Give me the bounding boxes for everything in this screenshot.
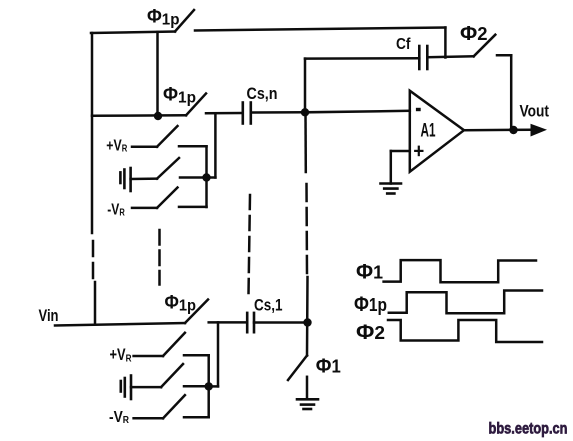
label plus input: [415, 147, 422, 155]
label +VR bottom mux: [110, 346, 132, 364]
wire mux node link: [207, 176, 216, 179]
wire gnd lead top mux: [131, 177, 157, 180]
svg-text:Φ1p: Φ1p: [165, 293, 197, 315]
svg-text:bbs.eetop.cn: bbs.eetop.cn: [489, 421, 568, 438]
label -VR bottom mux: [109, 409, 130, 426]
waveform phi2: [388, 320, 542, 342]
wire bottom mux link: [209, 385, 218, 388]
wire summing column solid upper: [304, 112, 307, 172]
label Cs,1: [254, 296, 283, 315]
label phi2 timing: [356, 321, 385, 344]
capacitor Cs,n: [243, 103, 251, 124]
capacitor Cf: [419, 46, 427, 69]
label +VR top mux: [106, 137, 128, 154]
svg-text:Vin: Vin: [39, 306, 59, 325]
wire summing column solid lower: [306, 277, 309, 356]
svg-text:Φ1p: Φ1p: [163, 85, 196, 107]
switch S2 phi1p branch n: [186, 94, 206, 116]
wire phi1 lower contact to ground: [306, 377, 309, 399]
wire left rail dashed: [92, 241, 95, 279]
ground symbol bottom mux rotated: [121, 376, 131, 400]
svg-text:+VR: +VR: [110, 346, 132, 364]
svg-text:Φ1p: Φ1p: [354, 293, 387, 316]
wire -VR contact bottom: [184, 416, 209, 419]
capacitor Cs,1: [247, 313, 254, 332]
node top mux dot: [202, 173, 210, 181]
node output dot: [509, 126, 517, 134]
wire +VR lead bottom: [134, 355, 163, 358]
label phi1 timing: [356, 261, 383, 284]
wire -VR contact top: [179, 206, 207, 209]
waveform phi1: [384, 260, 536, 282]
label minus input: [416, 108, 421, 111]
wire Cf to phi2 switch: [427, 55, 473, 58]
label Vin: [39, 306, 59, 325]
wire op-amp output: [464, 128, 531, 131]
node summing node dot: [301, 108, 309, 116]
label Cs,n: [247, 84, 278, 103]
label phi1p timing: [354, 293, 387, 316]
wire summing column dashed: [305, 184, 308, 274]
wire plus input to ground: [390, 151, 393, 184]
arrow output: [531, 124, 548, 137]
wire vertical to mux node: [214, 113, 217, 177]
label Vout: [520, 102, 550, 121]
svg-text:Cs,n: Cs,n: [247, 84, 278, 103]
wire phi2 to output: [510, 55, 513, 130]
svg-text:Φ1: Φ1: [316, 355, 341, 378]
node bottom mux dot: [205, 382, 213, 390]
svg-text:Cs,1: Cs,1: [254, 296, 283, 315]
wire gnd lead bottom mux: [131, 386, 161, 389]
wire left rail lower solid: [94, 282, 97, 324]
dashed ellipsis mid-right: [249, 195, 251, 295]
wire gnd contact top: [180, 176, 204, 179]
wire top-left horizontal: [91, 32, 175, 34]
wire left rail upper solid: [91, 33, 94, 233]
op-amp A1: [410, 91, 464, 172]
wire gnd contact bottom: [184, 385, 206, 388]
wire mux right rail bottom: [207, 355, 210, 417]
switch S5 gnd top: [157, 158, 179, 179]
ground bottom: [297, 399, 318, 409]
waveform phi1p: [389, 291, 542, 314]
wire input switch contact: [209, 321, 247, 324]
svg-text:A1: A1: [421, 121, 436, 142]
wire -VR lead bottom: [134, 417, 163, 420]
switch S3 phi2: [474, 35, 496, 57]
wire Cs,n to summing node: [251, 111, 306, 114]
svg-text:Vout: Vout: [520, 102, 550, 121]
label Cf: [396, 36, 411, 53]
svg-text:Cf: Cf: [396, 36, 411, 53]
svg-text:-VR: -VR: [107, 201, 125, 218]
label phi1p input: [165, 293, 197, 315]
svg-text:Φ2: Φ2: [356, 321, 385, 344]
switch S11 phi1 bottom: [288, 356, 307, 381]
wire top horizontal to feedback: [195, 28, 445, 31]
switch S4 +VR top: [157, 126, 178, 147]
wire summing node to op-amp minus: [305, 111, 410, 113]
node junction dot: [154, 112, 162, 120]
label A1: [421, 121, 436, 142]
label phi2: [460, 22, 488, 45]
node Cs,1 junction dot: [303, 318, 311, 326]
svg-text:Φ1p: Φ1p: [147, 7, 180, 29]
switch S10 -VR bottom: [163, 395, 185, 418]
svg-text:Φ2: Φ2: [460, 22, 488, 45]
ground op-amp: [381, 184, 402, 194]
svg-text:Φ1: Φ1: [356, 261, 383, 284]
wire switch contact to Cs,n: [206, 112, 243, 115]
wire feedback vertical up: [304, 59, 307, 113]
wire Vin: [55, 323, 185, 326]
wire vertical between top wires: [156, 32, 159, 116]
wire plus input: [391, 150, 410, 153]
wire phi2 contact: [497, 54, 511, 57]
label phi1p top: [147, 7, 180, 29]
switch S1 phi1p top reset: [175, 10, 194, 32]
label phi1 bottom: [316, 355, 341, 378]
wire second horizontal: [92, 114, 186, 117]
wire mux right rail top: [205, 146, 208, 207]
wire -VR lead top: [132, 207, 157, 210]
svg-text:-VR: -VR: [109, 409, 130, 426]
label -VR top mux: [107, 201, 125, 218]
wire +VR lead: [132, 145, 157, 148]
label phi1p branch n: [163, 85, 196, 107]
switch S8 +VR bottom: [163, 333, 185, 356]
wire Cs,1 to summing column: [254, 321, 307, 324]
wire +VR contact: [179, 145, 207, 148]
dashed ellipsis mid-left: [158, 230, 161, 285]
wire Cf feedback horizontal: [305, 57, 419, 60]
wire vertical to bottom mux: [217, 322, 220, 386]
ground symbol top mux rotated: [120, 168, 130, 191]
switch S6 -VR top: [157, 188, 178, 208]
wire vertical drop into Cf node: [444, 28, 447, 58]
svg-text:+VR: +VR: [106, 137, 128, 154]
switch S9 gnd bottom: [161, 364, 183, 387]
wire +VR contact bottom: [184, 354, 209, 357]
switch S7 phi1p input: [185, 300, 208, 324]
